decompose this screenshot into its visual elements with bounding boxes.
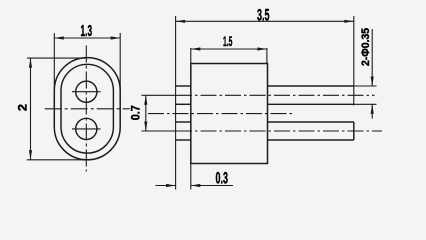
svg-text:0.7: 0.7 [131,105,143,120]
svg-text:2: 2 [16,104,30,111]
svg-text:3.5: 3.5 [257,6,270,25]
svg-text:0.3: 0.3 [215,170,228,188]
svg-text:1.5: 1.5 [223,34,232,50]
svg-text:1.3: 1.3 [81,23,93,40]
svg-text:2-Φ0.35: 2-Φ0.35 [360,28,372,66]
